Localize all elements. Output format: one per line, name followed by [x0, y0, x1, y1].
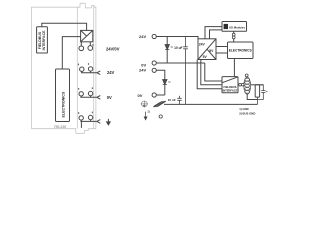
contact pair to I/O modules: [233, 31, 235, 33]
terminal row earth (left module): [79, 116, 83, 120]
rail earth dot: [159, 115, 162, 118]
wires dc/dc to electronics: [216, 47, 228, 54]
svg-text:5V: 5V: [203, 55, 208, 59]
svg-text:5V: 5V: [209, 49, 214, 53]
svg-text:INTERFACE: INTERFACE: [42, 30, 46, 51]
wire field pair: [156, 70, 165, 95]
dc/dc converter 24V-5V: [198, 39, 216, 60]
wires dc/dc to I/O modules: [205, 27, 222, 39]
terminal 0V field: [152, 93, 156, 97]
terminal 0V system: [152, 61, 156, 65]
wire electronics to fieldbus interface: [233, 59, 235, 77]
I/O modules box: [222, 22, 247, 32]
wire transformer to termination: [251, 84, 264, 86]
svg-text:10 uF: 10 uF: [174, 46, 182, 50]
wire electronics to converter: [62, 37, 80, 69]
terminal row 24V (left module): [80, 67, 84, 71]
terminal 24V system: [152, 34, 156, 38]
fieldbus interface box (right): [222, 77, 238, 93]
wire 24V rail: [156, 37, 198, 39]
earth arrow label: [107, 119, 111, 125]
svg-text:2) BUS GND: 2) BUS GND: [239, 111, 255, 115]
svg-text:ELECTRONICS: ELECTRONICS: [229, 49, 252, 53]
capacitor C2: [257, 85, 265, 105]
svg-text:24V/0V: 24V/0V: [106, 47, 120, 52]
electronics box (right): [228, 42, 254, 59]
svg-text:FIELDBUS: FIELDBUS: [224, 85, 237, 89]
GND arrow 1): [144, 112, 147, 120]
wires supply to fieldbus interface: [197, 60, 222, 89]
svg-text:24V: 24V: [199, 42, 206, 46]
svg-text:1): 1): [147, 111, 149, 114]
wire fieldbus to converter: [42, 23, 87, 30]
svg-text:750-330: 750-330: [54, 125, 67, 129]
transformer contact pair: [237, 84, 240, 86]
GND bus: [164, 103, 258, 105]
svg-text:ELECTRONICS: ELECTRONICS: [61, 91, 65, 117]
converter box (left module): [81, 30, 93, 41]
svg-text:24V: 24V: [139, 67, 146, 72]
wire 0V rail: [156, 62, 205, 64]
svg-text:0V: 0V: [138, 93, 143, 98]
terminal 24V field: [152, 68, 156, 72]
module outline frame: [32, 3, 96, 133]
resistor R1: [255, 85, 259, 97]
earth electrode symbol: [141, 101, 148, 108]
electronics box (left module): [56, 69, 70, 122]
svg-text:0V: 0V: [107, 95, 112, 100]
power jumper contacts 24V/0V: [80, 42, 82, 46]
terminal number marks: [78, 44, 94, 114]
svg-text:I/O Modules: I/O Modules: [229, 25, 245, 29]
fieldbus interface box U1: [37, 27, 48, 53]
svg-text:10 nF: 10 nF: [168, 98, 176, 102]
svg-text:1) GND: 1) GND: [239, 107, 248, 111]
terminal row 0V (left module): [79, 92, 83, 96]
suppressor diode Z1: [166, 37, 168, 64]
svg-text:INTERFACE: INTERFACE: [223, 88, 238, 92]
wire earth to rail foot: [80, 121, 82, 128]
suppressor diode Z2: [163, 80, 167, 85]
carrier rail symbol: [153, 101, 166, 107]
transformer top contact: [245, 74, 248, 77]
svg-text:24V: 24V: [139, 34, 146, 39]
transformer T1: [244, 77, 251, 94]
svg-text:24V: 24V: [107, 70, 115, 75]
